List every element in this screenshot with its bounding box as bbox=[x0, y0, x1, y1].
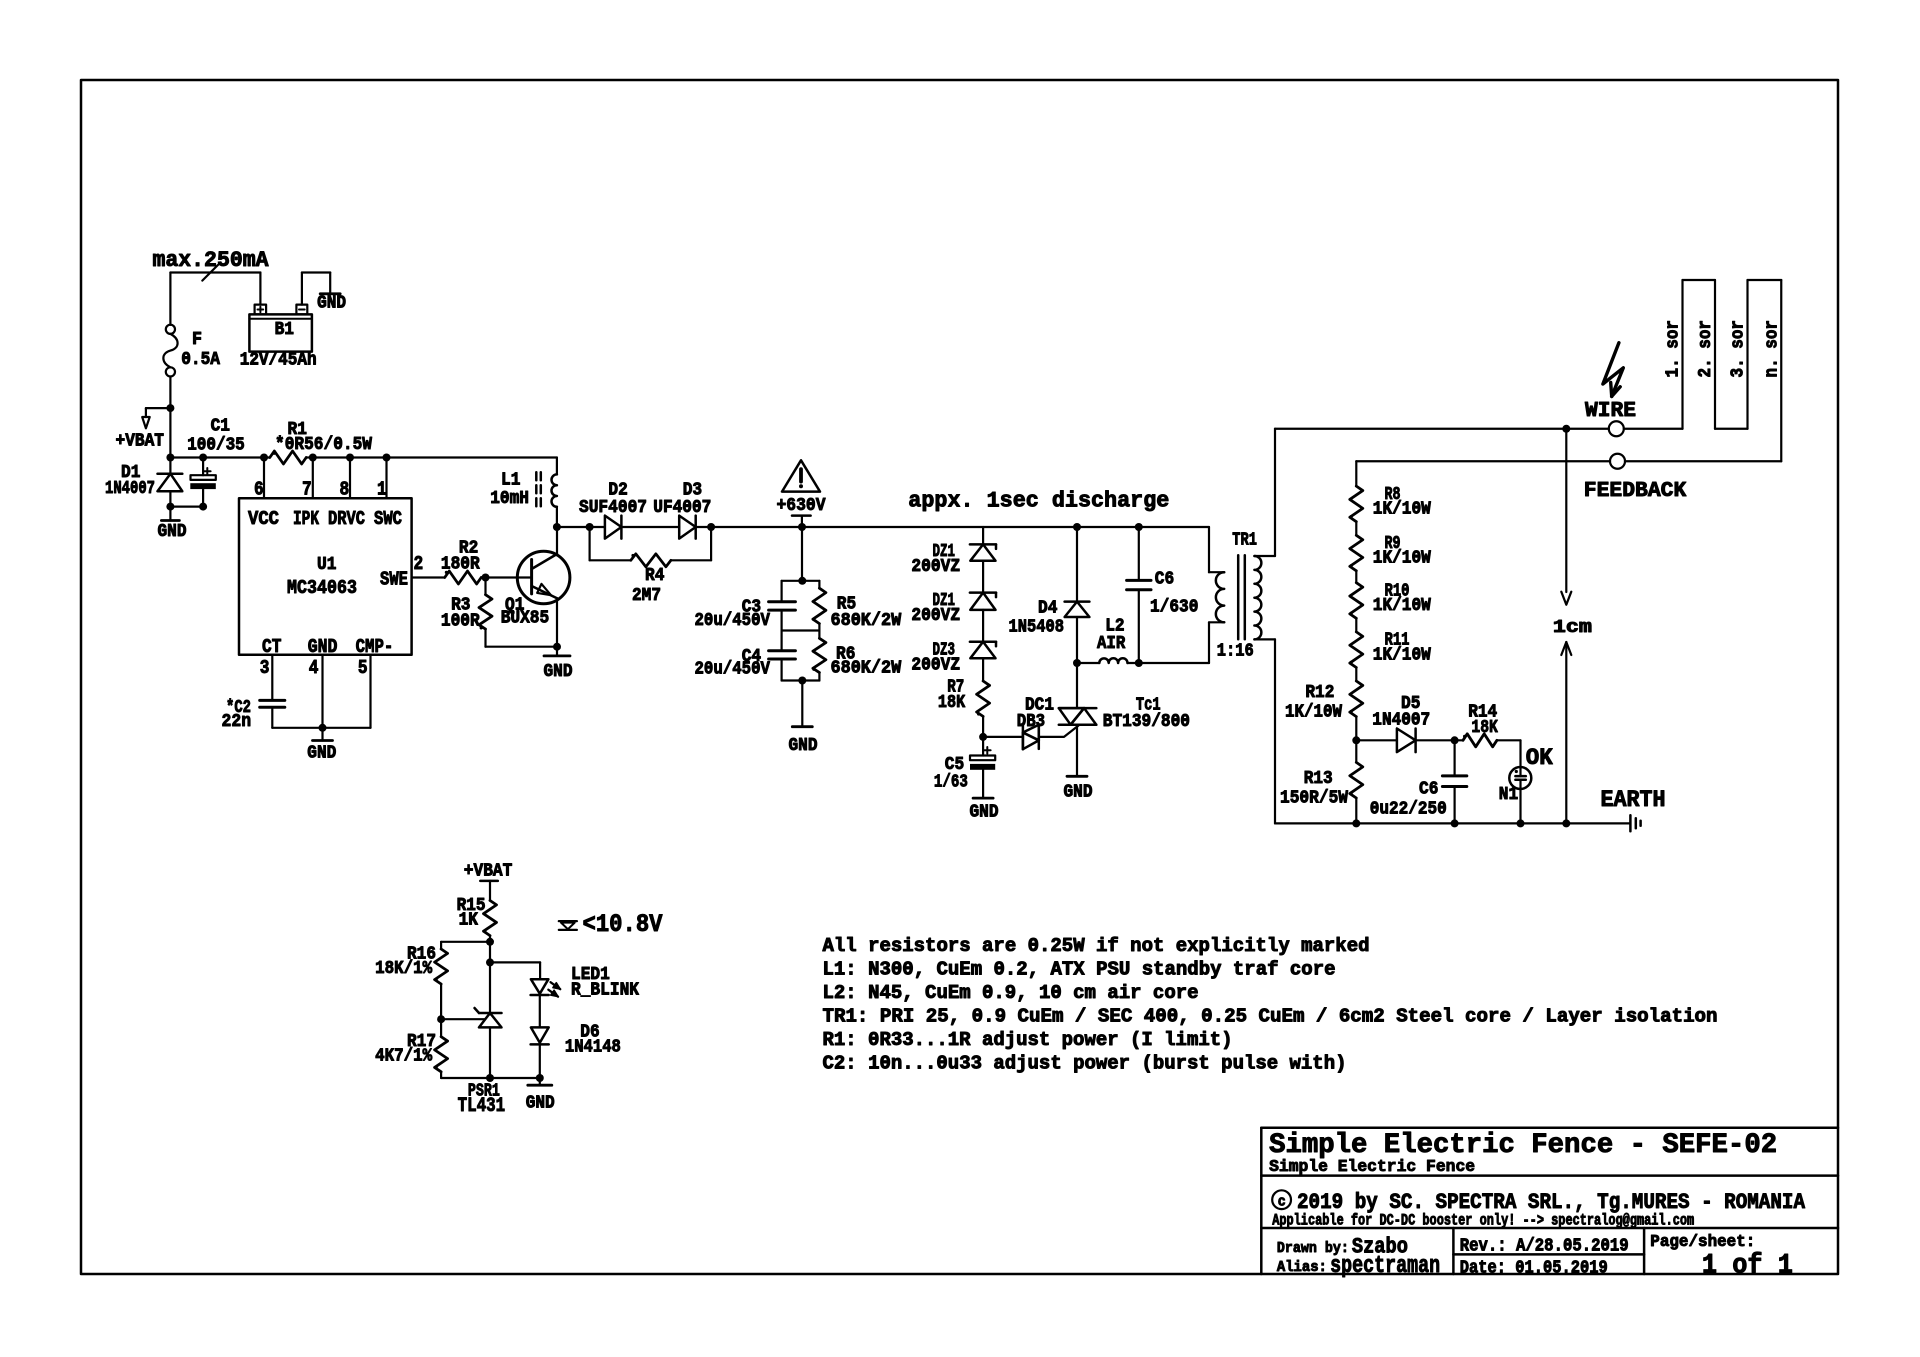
svg-text:8: 8 bbox=[340, 479, 350, 501]
svg-text:R1: 0R33...1R adjust power (I: R1: 0R33...1R adjust power (I limit) bbox=[823, 1029, 1233, 1051]
svg-text:1cm: 1cm bbox=[1553, 618, 1592, 638]
subtitle text bbox=[1269, 1158, 1475, 1177]
ground (U1) bbox=[307, 728, 336, 764]
svg-text:TR1: TR1 bbox=[1232, 531, 1257, 551]
wire R9-R10 bbox=[1355, 571, 1357, 583]
node R15/R16 junction bbox=[486, 938, 494, 946]
svg-text:CMP-: CMP- bbox=[356, 636, 394, 658]
ground EARTH symbol bbox=[1601, 787, 1666, 831]
wire monitor bottom bbox=[441, 1077, 540, 1079]
svg-text:R4: R4 bbox=[645, 566, 665, 586]
svg-text:L1: N300, CuEm 0.2, ATX PSU st: L1: N300, CuEm 0.2, ATX PSU standby traf… bbox=[823, 959, 1336, 981]
diode D3 UF4007 bbox=[653, 481, 711, 539]
resistor R10 1K/10W bbox=[1350, 582, 1431, 619]
svg-text:1. sor: 1. sor bbox=[1664, 320, 1684, 378]
capacitor C3 20u/450V bbox=[695, 581, 796, 631]
wire FEEDBACK to R8 bbox=[1355, 461, 1357, 486]
wire R13 to rail bbox=[1355, 798, 1357, 823]
pin 4 bbox=[309, 655, 323, 728]
wire R7 node to diac bbox=[983, 736, 1023, 738]
resistor R9 1K/10W bbox=[1350, 534, 1431, 571]
rev label bbox=[1460, 1237, 1629, 1257]
svg-text:1:16: 1:16 bbox=[1217, 642, 1254, 662]
wire L2 node to TR1 primary bbox=[1139, 662, 1209, 664]
wire DZ1-DZ1 bbox=[982, 561, 984, 593]
pin 5 bbox=[358, 655, 371, 728]
svg-text:4: 4 bbox=[309, 657, 319, 679]
node 3. sor bbox=[1729, 320, 1749, 378]
diode D2 SUF4007 bbox=[579, 481, 647, 539]
resistor R11 1K/10W bbox=[1350, 631, 1431, 668]
svg-text:BUX85: BUX85 bbox=[501, 609, 550, 629]
svg-text:22n: 22n bbox=[222, 712, 252, 732]
svg-text:GND: GND bbox=[789, 736, 818, 756]
wire FEEDBACK net bbox=[1356, 460, 1781, 462]
svg-text:All resistors are 0.25W if not: All resistors are 0.25W if not explicitl… bbox=[823, 935, 1370, 957]
capacitor C2 22n bbox=[222, 698, 285, 732]
svg-text:B1: B1 bbox=[275, 320, 295, 340]
wire HV divider top bbox=[782, 527, 820, 585]
date label bbox=[1460, 1259, 1608, 1279]
transistor Q1 BUX85 bbox=[501, 551, 570, 628]
svg-text:GND: GND bbox=[317, 294, 346, 314]
transformer TR1 core bbox=[1238, 555, 1245, 639]
node n. sor bbox=[1762, 320, 1782, 378]
wire divider bottom bbox=[782, 677, 820, 685]
svg-text:D4: D4 bbox=[1038, 599, 1058, 619]
svg-text:1N4148: 1N4148 bbox=[565, 1038, 621, 1058]
wire fence loop 1 bbox=[1624, 280, 1715, 429]
wire spark gap top bbox=[1565, 429, 1567, 592]
svg-text:R13: R13 bbox=[1304, 769, 1333, 789]
led LED1 R_BLINK bbox=[531, 965, 640, 1001]
svg-text:AIR: AIR bbox=[1097, 634, 1125, 654]
title block frame bbox=[1261, 1128, 1838, 1274]
svg-text:+630V: +630V bbox=[777, 496, 826, 516]
svg-text:F: F bbox=[192, 330, 202, 350]
wire WIRE net bbox=[1275, 425, 1609, 433]
ground (Tc1) bbox=[1064, 776, 1093, 802]
svg-text:GND: GND bbox=[544, 662, 573, 682]
wire VCC rail left bbox=[166, 454, 269, 462]
node notes line 3 bbox=[823, 982, 1199, 1004]
svg-text:EARTH: EARTH bbox=[1601, 787, 1666, 813]
svg-text:C2: 10n...0u33 adjust power (b: C2: 10n...0u33 adjust power (burst pulse… bbox=[823, 1053, 1347, 1075]
svg-text:200VZ: 200VZ bbox=[911, 606, 960, 626]
svg-text:3. sor: 3. sor bbox=[1729, 320, 1749, 378]
svg-text:6: 6 bbox=[254, 479, 264, 501]
wire collector node to D2 bbox=[553, 523, 605, 531]
resistor R3 100R bbox=[441, 578, 492, 647]
wire rail to DZ1 bbox=[982, 527, 984, 544]
svg-text:12V/45Ah: 12V/45Ah bbox=[240, 351, 317, 371]
wire R11-R12 bbox=[1355, 668, 1357, 682]
svg-text:1N4007: 1N4007 bbox=[105, 479, 155, 499]
applicable note text bbox=[1272, 1212, 1694, 1230]
zener DZ3 200VZ bbox=[911, 641, 996, 676]
svg-text:R_BLINK: R_BLINK bbox=[571, 981, 639, 1001]
svg-text:R12: R12 bbox=[1305, 683, 1334, 703]
svg-text:MC34063: MC34063 bbox=[287, 577, 357, 599]
svg-text:150R/5W: 150R/5W bbox=[1280, 789, 1348, 809]
node max.250mA current note bbox=[153, 248, 270, 273]
svg-text:2. sor: 2. sor bbox=[1696, 320, 1716, 378]
wire R3 to emitter bbox=[486, 643, 562, 651]
svg-text:2M7: 2M7 bbox=[632, 586, 661, 606]
node notes line 4 bbox=[823, 1006, 1718, 1028]
transformer TR1 primary bbox=[1209, 527, 1224, 663]
svg-text:1/630: 1/630 bbox=[1150, 598, 1198, 618]
node 2. sor bbox=[1696, 320, 1716, 378]
svg-text:680K/2W: 680K/2W bbox=[831, 611, 902, 631]
svg-text:3: 3 bbox=[260, 657, 270, 679]
svg-text:FEEDBACK: FEEDBACK bbox=[1584, 480, 1687, 503]
svg-text:1N5408: 1N5408 bbox=[1009, 618, 1065, 638]
svg-text:Alias:: Alias: bbox=[1277, 1259, 1327, 1276]
wire battery minus to gnd bbox=[302, 273, 330, 305]
svg-text:C6: C6 bbox=[1155, 570, 1174, 590]
resistor R1 *0R56/0.5W bbox=[270, 420, 372, 464]
svg-text:*0R56/0.5W: *0R56/0.5W bbox=[275, 435, 372, 455]
wire LED1 to D6 bbox=[539, 995, 541, 1027]
svg-text:100/35: 100/35 bbox=[187, 436, 245, 456]
wire R2 to base bbox=[481, 574, 531, 582]
svg-text:1: 1 bbox=[377, 479, 387, 501]
svg-text:Simple Electric Fence - SEFE-0: Simple Electric Fence - SEFE-02 bbox=[1269, 1130, 1777, 1161]
svg-text:WIRE: WIRE bbox=[1585, 400, 1636, 423]
node OK label bbox=[1526, 745, 1553, 771]
svg-text:SWC: SWC bbox=[374, 508, 402, 530]
wire DZ1-DZ3 bbox=[982, 610, 984, 642]
svg-text:UF4007: UF4007 bbox=[653, 498, 711, 518]
pin 6 bbox=[254, 458, 264, 501]
wire divider mid bbox=[782, 629, 820, 631]
svg-text:GND: GND bbox=[158, 522, 187, 542]
pin 2 SWE stub bbox=[412, 553, 445, 578]
copyright symbol bbox=[1272, 1190, 1291, 1210]
svg-text:1K/10W: 1K/10W bbox=[1373, 549, 1431, 569]
resistor R4 2M7 bypass bbox=[590, 527, 712, 606]
resistor R5 680K/2W bbox=[812, 581, 901, 631]
svg-text:1 of 1: 1 of 1 bbox=[1702, 1251, 1793, 1282]
svg-text:VCC: VCC bbox=[248, 508, 279, 530]
capacitor C1 100/35 bbox=[187, 417, 245, 511]
alias label bbox=[1277, 1253, 1440, 1280]
svg-text:18K: 18K bbox=[938, 693, 965, 713]
fuse F 0.5A bbox=[163, 325, 220, 377]
node blink indicator symbol bbox=[559, 921, 577, 930]
inductor L2 AIR bbox=[1077, 617, 1143, 668]
power +VBAT (monitor) bbox=[464, 862, 513, 901]
resistor R2 180R bbox=[441, 539, 481, 585]
triac Tc1 BT139/800 bbox=[1039, 696, 1190, 737]
wire Q1 emitter bbox=[556, 598, 558, 647]
svg-text:0u22/250: 0u22/250 bbox=[1370, 800, 1447, 820]
svg-text:1K/10W: 1K/10W bbox=[1373, 645, 1431, 665]
svg-text:n. sor: n. sor bbox=[1762, 320, 1782, 378]
resistor R6 680K/2W bbox=[812, 631, 901, 681]
op-amp U1 MC34063 body bbox=[239, 498, 412, 658]
capacitor C5 1/63 bbox=[934, 737, 995, 798]
svg-text:Applicable for DC-DC booster o: Applicable for DC-DC booster only! --> s… bbox=[1272, 1212, 1694, 1230]
wire R8-R9 bbox=[1355, 522, 1357, 536]
svg-text:C6: C6 bbox=[1419, 780, 1438, 800]
ground (C3/C4) bbox=[789, 681, 818, 757]
svg-text:+VBAT: +VBAT bbox=[464, 862, 513, 882]
svg-text:DB3: DB3 bbox=[1017, 712, 1045, 732]
wire +630V rail to TR1 bbox=[802, 523, 1209, 531]
power +VBAT (top) bbox=[116, 408, 171, 451]
svg-text:20u/450V: 20u/450V bbox=[695, 611, 771, 631]
svg-text:U1: U1 bbox=[317, 555, 337, 575]
capacitor C6 1/630 bbox=[1127, 527, 1199, 663]
node notes line 1 bbox=[823, 935, 1370, 957]
page sheet label bbox=[1650, 1233, 1793, 1282]
wire D3 to +630V node bbox=[696, 523, 806, 531]
node notes line 5 bbox=[823, 1029, 1233, 1051]
resistor R16 18K/1% bbox=[375, 945, 448, 1020]
copyright text bbox=[1297, 1190, 1806, 1215]
node WIRE terminal bbox=[1585, 400, 1636, 436]
node <10.8V label bbox=[583, 910, 663, 939]
svg-text:1K/10W: 1K/10W bbox=[1373, 500, 1431, 520]
svg-text:1N4007: 1N4007 bbox=[1372, 711, 1430, 731]
node notes line 6 bbox=[823, 1053, 1347, 1075]
wire R10-R11 bbox=[1355, 618, 1357, 632]
wire HV bottom rail bbox=[1275, 819, 1630, 827]
wire R12 to D5 node bbox=[1352, 717, 1360, 763]
ground (Q1) bbox=[544, 647, 573, 682]
svg-text:+VBAT: +VBAT bbox=[116, 432, 165, 452]
capacitor C4 20u/450V bbox=[695, 631, 796, 681]
diode D4 1N5408 bbox=[1009, 527, 1090, 667]
wire fuse to junction bbox=[166, 377, 174, 458]
diac DC1 DB3 bbox=[1017, 696, 1054, 750]
battery B1 12V/45Ah bbox=[240, 305, 317, 371]
capacitor C6 0u22/250 bbox=[1370, 740, 1467, 823]
svg-text:GND: GND bbox=[1064, 783, 1093, 803]
shunt regulator PSR1 TL431 bbox=[458, 962, 506, 1118]
neon lamp N1 bbox=[1499, 740, 1532, 823]
pin 7 bbox=[302, 458, 313, 501]
node appx. 1sec discharge note bbox=[908, 489, 1169, 514]
svg-text:10mH: 10mH bbox=[490, 489, 529, 509]
resistor R12 1K/10W bbox=[1285, 681, 1363, 723]
node 1. sor bbox=[1664, 320, 1684, 378]
resistor R7 18K bbox=[938, 678, 990, 737]
svg-text:GND: GND bbox=[970, 803, 999, 823]
svg-text:200VZ: 200VZ bbox=[911, 557, 960, 577]
diode D1 1N4007 bbox=[105, 458, 182, 511]
svg-text:1K/10W: 1K/10W bbox=[1285, 703, 1342, 723]
svg-text:Date: 01.05.2019: Date: 01.05.2019 bbox=[1460, 1259, 1608, 1279]
wire battery top loop bbox=[170, 273, 260, 325]
node R7/C5/diac junction bbox=[979, 733, 987, 741]
diode D6 1N4148 bbox=[531, 1023, 621, 1083]
svg-text:c: c bbox=[1278, 1194, 1286, 1211]
svg-text:Page/sheet:: Page/sheet: bbox=[1650, 1233, 1755, 1252]
power +630V warning bbox=[777, 460, 826, 527]
svg-text:SUF4007: SUF4007 bbox=[579, 498, 647, 518]
ground (C5) bbox=[970, 798, 999, 822]
transformer TR1 labels bbox=[1217, 531, 1257, 662]
svg-text:0.5A: 0.5A bbox=[181, 350, 220, 370]
svg-text:spectraman: spectraman bbox=[1330, 1253, 1440, 1280]
inductor L1 10mH bbox=[490, 458, 557, 528]
wire triac to gnd bbox=[1076, 725, 1078, 777]
svg-text:100R: 100R bbox=[441, 612, 480, 632]
svg-text:GND: GND bbox=[307, 744, 336, 764]
ground (D1/C1) bbox=[158, 507, 187, 542]
svg-text:SWE: SWE bbox=[380, 569, 408, 591]
title text bbox=[1269, 1130, 1777, 1161]
resistor R15 1K bbox=[457, 896, 497, 942]
svg-text:GND: GND bbox=[526, 1094, 555, 1114]
svg-text:7: 7 bbox=[302, 479, 312, 501]
svg-text:680K/2W: 680K/2W bbox=[831, 659, 902, 679]
wire D2-D3 bbox=[621, 526, 679, 528]
svg-text:Simple Electric Fence: Simple Electric Fence bbox=[1269, 1158, 1475, 1177]
pin 1 bbox=[377, 458, 387, 501]
svg-text:TL431: TL431 bbox=[458, 1095, 506, 1118]
wire D4 node to triac bbox=[1076, 663, 1078, 708]
svg-text:OK: OK bbox=[1526, 745, 1553, 771]
resistor R8 1K/10W bbox=[1350, 485, 1431, 522]
pin 3 bbox=[260, 655, 273, 701]
svg-text:C1: C1 bbox=[211, 417, 231, 437]
svg-text:IPK: IPK bbox=[293, 508, 319, 530]
svg-text:1K/10W: 1K/10W bbox=[1373, 596, 1431, 616]
svg-text:1K: 1K bbox=[459, 911, 479, 931]
wire VCC rail right bbox=[306, 454, 557, 462]
zener DZ1 200VZ (middle) bbox=[911, 591, 996, 626]
svg-text:1/63: 1/63 bbox=[934, 773, 968, 793]
wire TL431 ref bbox=[441, 1018, 484, 1020]
node FEEDBACK terminal bbox=[1584, 454, 1687, 503]
svg-text:BT139/800: BT139/800 bbox=[1103, 712, 1190, 732]
pin 8 bbox=[340, 458, 351, 501]
transformer TR1 secondary bbox=[1254, 429, 1275, 824]
wire R15 to LED branch bbox=[486, 942, 494, 967]
wire D1-C1 bottom bbox=[170, 506, 203, 508]
svg-text:18K/1%: 18K/1% bbox=[375, 959, 432, 979]
diode D5 1N4007 bbox=[1356, 694, 1458, 752]
ground (battery) bbox=[317, 294, 346, 314]
resistor R14 18K bbox=[1455, 703, 1521, 747]
svg-text:L2: N45, CuEm 0.9, 10 cm air c: L2: N45, CuEm 0.9, 10 cm air core bbox=[823, 982, 1199, 1004]
node R16/R17 junction bbox=[437, 1015, 445, 1023]
svg-text:TR1: PRI 25, 0.9 CuEm / SEC 40: TR1: PRI 25, 0.9 CuEm / SEC 400, 0.25 Cu… bbox=[823, 1006, 1718, 1028]
svg-text:200VZ: 200VZ bbox=[911, 656, 960, 676]
wire junction to R16 bbox=[441, 942, 490, 949]
current-limit slash mark bbox=[202, 263, 220, 281]
svg-text:DRVC: DRVC bbox=[328, 508, 365, 530]
zener DZ1 200VZ (top) bbox=[911, 542, 996, 577]
wire C2/pin4/pin5 bottom bbox=[272, 724, 370, 732]
wire DZ3-R7 bbox=[982, 658, 984, 681]
node 1cm gap bbox=[1553, 592, 1592, 655]
svg-text:max.250mA: max.250mA bbox=[153, 248, 270, 273]
lightning bolt bbox=[1603, 343, 1623, 397]
svg-text:5: 5 bbox=[358, 657, 368, 679]
ground (monitor) bbox=[526, 1078, 555, 1114]
svg-text:18K: 18K bbox=[1471, 718, 1498, 738]
svg-text:<10.8V: <10.8V bbox=[583, 910, 663, 939]
wire LED branch bbox=[490, 962, 540, 979]
svg-text:Rev.: A/28.05.2019: Rev.: A/28.05.2019 bbox=[1460, 1237, 1629, 1257]
wire Q1 collector bbox=[556, 527, 558, 555]
resistor R13 150R/5W bbox=[1280, 762, 1363, 808]
svg-text:4K7/1%: 4K7/1% bbox=[375, 1047, 432, 1067]
svg-text:20u/450V: 20u/450V bbox=[695, 660, 771, 680]
wire fence loop 2 bbox=[1715, 280, 1781, 461]
svg-text:appx. 1sec discharge: appx. 1sec discharge bbox=[908, 489, 1169, 514]
svg-text:180R: 180R bbox=[441, 555, 480, 575]
node notes line 2 bbox=[823, 959, 1336, 981]
drawn by label bbox=[1277, 1235, 1408, 1260]
svg-text:2: 2 bbox=[414, 553, 424, 575]
resistor R17 4K7/1% bbox=[375, 1019, 448, 1078]
svg-text:N1: N1 bbox=[1499, 785, 1519, 805]
svg-text:L1: L1 bbox=[501, 471, 521, 491]
wire spark gap bottom bbox=[1565, 642, 1567, 823]
